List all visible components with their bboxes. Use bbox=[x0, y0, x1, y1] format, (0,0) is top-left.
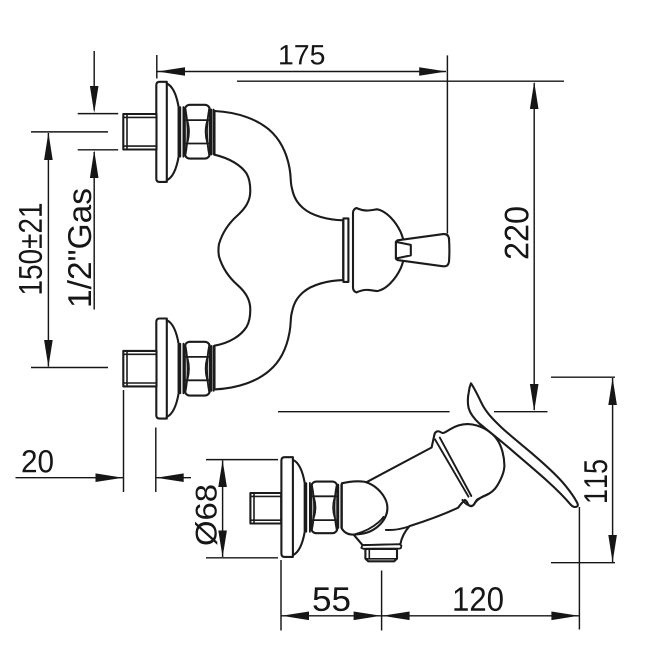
text 175 bbox=[280, 45, 324, 65]
nozzle aerator (front view) bbox=[396, 242, 411, 259]
upper escutcheon flange profile bbox=[167, 84, 179, 181]
text 220 (rotated) bbox=[505, 207, 529, 258]
side view: elbow ball arc bbox=[354, 482, 388, 534]
lower connection nut bbox=[185, 342, 210, 396]
text 20 bbox=[22, 450, 52, 473]
side view: elbow-to-barrel crotch edge bbox=[356, 517, 384, 534]
text 150±21 (rotated) bbox=[19, 204, 42, 294]
lower wall nipple 1/2 inch thread bbox=[123, 351, 156, 387]
side view: cap collar line B bbox=[440, 438, 472, 496]
dimension 120: right extension line (lever tip) bbox=[578, 507, 580, 630]
dimension 220: top arrowhead bbox=[530, 82, 539, 109]
lower escutcheon flange profile bbox=[167, 320, 179, 417]
upper wall nipple 1/2 inch thread bbox=[123, 114, 156, 150]
text Ø68 (rotated) bbox=[195, 485, 217, 544]
dimension 150±21: top tick bbox=[31, 131, 108, 133]
dimension 115: bottom tick bbox=[551, 562, 615, 564]
side view: collar band bbox=[306, 483, 310, 532]
dimension 55: left extension line bbox=[280, 560, 282, 631]
dimension 175: left arrowhead bbox=[158, 67, 186, 76]
dimension 115: top arrowhead bbox=[608, 378, 617, 405]
dimension 115: dimension line bbox=[612, 378, 614, 562]
dimension 20: dimension line left part bbox=[16, 477, 124, 479]
dimension 220: dimension line bbox=[533, 83, 535, 410]
dimension 115: bottom arrowhead bbox=[608, 535, 617, 562]
dimension 175: extension line at wall face bbox=[156, 55, 158, 79]
thread ticks 1/2 Gas bbox=[78, 113, 119, 115]
spout collar (front view) bbox=[343, 218, 348, 282]
dimension Ø68: top tick bbox=[206, 459, 278, 461]
side view: barrel bottom crease bbox=[386, 527, 409, 530]
dimension 220: bottom arrowhead bbox=[530, 384, 539, 411]
dimension 175: dimension line bbox=[157, 71, 446, 73]
dimension Ø68: dimension line bbox=[222, 461, 224, 558]
side view: escutcheon plate bbox=[281, 457, 293, 557]
dimension 115: top tick bbox=[551, 376, 615, 378]
dimension 150±21: top arrowhead bbox=[44, 132, 53, 160]
side view: skirt bottom wave bbox=[462, 494, 488, 506]
dimension 55/120: middle extension line (spout axis) bbox=[381, 571, 383, 631]
dimension 20: dimension line right part bbox=[156, 477, 191, 479]
text 115 (rotated) bbox=[584, 460, 607, 502]
upper connection nut bbox=[185, 105, 210, 159]
dimension 20: right extension line bbox=[155, 428, 157, 493]
text 1/2&quot;Gas (rotated) bbox=[67, 189, 91, 305]
dimension 175: spout tip extension line bbox=[446, 55, 448, 233]
spout bell (front view) bbox=[353, 208, 405, 292]
dimension 150±21: bottom arrowhead bbox=[44, 340, 53, 367]
side view: escutcheon flange profile bbox=[293, 460, 305, 555]
side view: wall nipple bbox=[250, 493, 281, 524]
upper escutcheon plate (front view) bbox=[156, 82, 167, 182]
leader 1/2 Gas: lower line with up arrowhead bbox=[93, 152, 95, 310]
dimension 55: arrowheads bbox=[282, 612, 309, 621]
text 120 bbox=[454, 587, 502, 611]
lower collar band bbox=[180, 344, 183, 394]
side view: cap collar line A bbox=[435, 439, 469, 496]
dimension 120: arrowheads bbox=[382, 612, 409, 621]
spout nozzle (front view) bbox=[396, 234, 449, 266]
side view: body silhouette (elbow, barrel, cap dome and skirt) bbox=[342, 424, 505, 545]
dimension 220: bottom reference line left segment bbox=[278, 411, 450, 413]
leader 1/2 Gas: upper line with down arrowhead bbox=[93, 51, 95, 110]
dimension 150±21: bottom tick bbox=[31, 367, 108, 369]
lower body ring bbox=[211, 346, 213, 391]
text 55 bbox=[313, 587, 349, 611]
side view: lever handle bbox=[468, 383, 578, 507]
side view: connection nut bbox=[311, 482, 337, 534]
dimension 175: right arrowhead bbox=[419, 67, 446, 75]
upper body ring bbox=[211, 110, 213, 155]
dimension 20: left extension line bbox=[123, 390, 125, 492]
faucet body (front view) S-shaped casting bbox=[215, 111, 344, 389]
side view: body ring bbox=[338, 485, 341, 528]
dimension Ø68: bottom tick bbox=[206, 557, 278, 559]
dimension 220: top reference line bbox=[237, 80, 564, 82]
dimension 55/120: dimension line bbox=[281, 615, 579, 617]
dimension 150±21: dimension line bbox=[47, 133, 49, 367]
side view: spout collar slab bbox=[361, 544, 401, 549]
side view: spout outlet tube bbox=[365, 549, 397, 561]
upper collar band bbox=[180, 107, 183, 157]
dimension 220: bottom reference tick bbox=[494, 411, 548, 413]
lower escutcheon plate (front view) bbox=[156, 319, 167, 419]
